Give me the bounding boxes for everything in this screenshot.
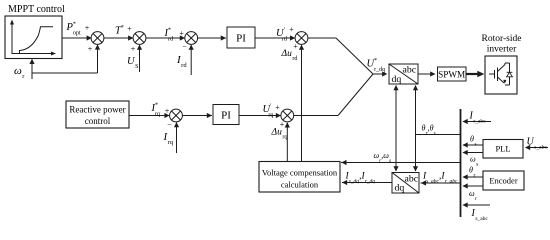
svg-text:dq: dq — [392, 74, 402, 85]
svg-text:+: + — [293, 42, 298, 51]
svg-text:+: + — [275, 103, 280, 112]
svg-text:PI: PI — [236, 33, 246, 45]
svg-text:+: + — [165, 107, 170, 116]
svg-text:SPWM: SPWM — [438, 70, 465, 80]
svg-text:MPPT control: MPPT control — [8, 4, 65, 15]
svg-text:+: + — [88, 45, 93, 54]
svg-text:control: control — [85, 116, 111, 126]
svg-text:+: + — [127, 25, 132, 34]
svg-text:+: + — [179, 29, 184, 38]
svg-text:+: + — [289, 25, 294, 34]
svg-text:+: + — [131, 45, 136, 54]
svg-text:PLL: PLL — [495, 144, 510, 154]
svg-text:abc: abc — [405, 174, 419, 185]
svg-text:+: + — [85, 24, 90, 33]
svg-text:−: − — [167, 120, 172, 129]
svg-text:abc: abc — [403, 65, 417, 76]
svg-text:−: − — [182, 42, 187, 51]
svg-text:Rotor-side: Rotor-side — [482, 34, 522, 44]
svg-text:PI: PI — [221, 110, 231, 122]
svg-text:Encoder: Encoder — [489, 176, 517, 186]
svg-text:dq: dq — [395, 183, 405, 194]
svg-text:calculation: calculation — [281, 180, 319, 190]
svg-text:Reactive power: Reactive power — [69, 105, 125, 115]
svg-text:inverter: inverter — [487, 45, 517, 55]
svg-text:Voltage compensation: Voltage compensation — [262, 168, 338, 178]
